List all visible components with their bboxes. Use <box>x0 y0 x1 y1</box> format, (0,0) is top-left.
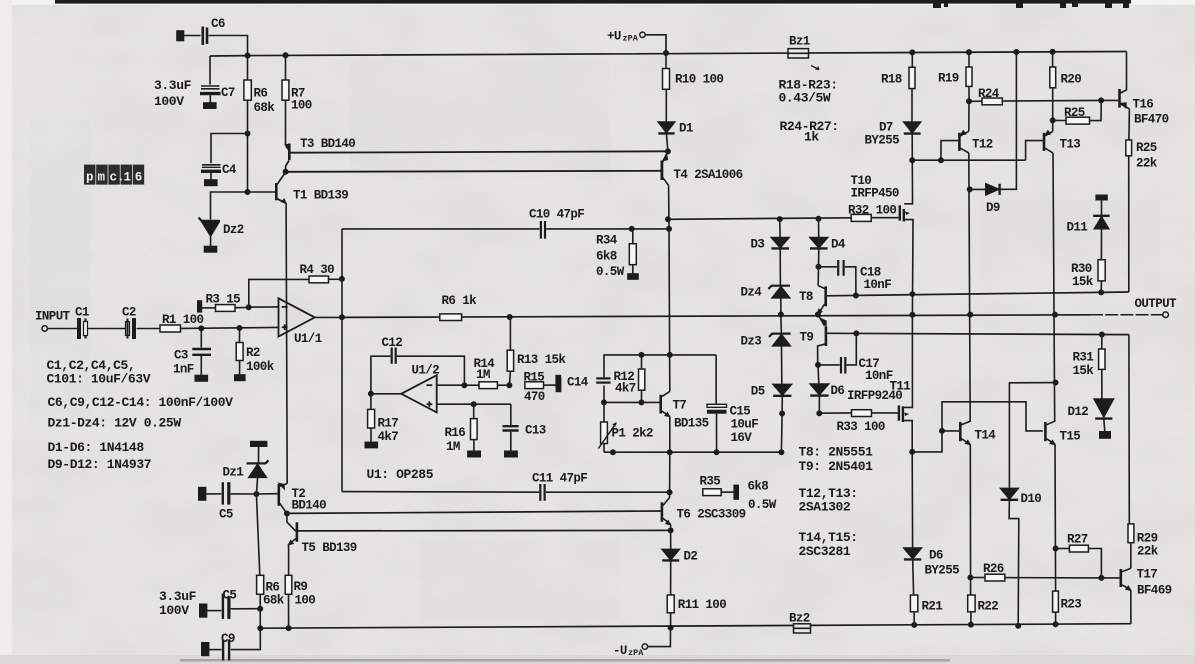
svg-text:100V: 100V <box>159 603 189 618</box>
wire T15 emitter down <box>1054 444 1057 591</box>
svg-text:22k: 22k <box>1137 545 1159 559</box>
svg-text:BY255: BY255 <box>865 134 900 148</box>
svg-text:D3: D3 <box>751 238 765 252</box>
svg-text:C13: C13 <box>525 424 546 438</box>
svg-text:D5: D5 <box>751 385 765 399</box>
svg-text:2SC3281: 2SC3281 <box>799 544 851 559</box>
svg-text:1k: 1k <box>804 130 819 145</box>
svg-text:m: m <box>98 171 106 185</box>
node output rail diode chain junction <box>779 312 783 316</box>
resistor R6 68k (top) <box>247 56 249 81</box>
resistor R17 4k7 <box>370 394 372 410</box>
wire U1/2 minus input line <box>437 384 465 386</box>
svg-text:BY255: BY255 <box>925 564 960 578</box>
node R33 junction <box>817 411 821 415</box>
wire inverting input line <box>249 306 279 308</box>
resistor R20 <box>1052 52 1054 67</box>
mosfet T10 IRFP450 <box>899 205 901 220</box>
resistor R35 with stub <box>703 489 721 496</box>
resistor R3 15 with stub terminal <box>198 301 202 312</box>
node T12 base line junction <box>910 158 914 162</box>
node VAS vertical bias junction <box>668 353 672 357</box>
svg-text:IRFP9240: IRFP9240 <box>847 389 902 403</box>
diode D5 <box>773 384 791 395</box>
svg-text:R21: R21 <box>922 600 943 614</box>
diode chain D4 <box>818 219 820 238</box>
svg-text:T1 BD139: T1 BD139 <box>293 189 348 203</box>
svg-text:BF469: BF469 <box>1137 584 1172 598</box>
resistor R6 68k (bottom) <box>257 575 264 594</box>
svg-text:zPA: zPA <box>623 34 639 44</box>
node R13/R14/R15 junction <box>507 383 511 387</box>
capacitor C2 <box>126 322 130 336</box>
wire compensation riser x=342 <box>341 229 343 492</box>
wire U1/2 plus input line <box>437 403 511 405</box>
node output rail junction T14 <box>968 312 972 316</box>
wire T10 drain <box>911 160 913 196</box>
svg-text:R13 15k: R13 15k <box>517 353 566 367</box>
wire T12 collector down <box>969 153 970 422</box>
svg-text:C1: C1 <box>75 306 89 320</box>
node T2 collector junction <box>285 511 289 515</box>
svg-text:C4: C4 <box>222 163 237 177</box>
svg-text:Bz2: Bz2 <box>789 612 810 626</box>
svg-text:D2: D2 <box>684 550 698 564</box>
resistor R22 <box>968 595 975 612</box>
wire R24 line <box>969 99 1101 102</box>
node bias rail junction <box>779 450 783 454</box>
capacitor C14 <box>596 377 610 379</box>
node R30 bottom junction <box>1099 290 1103 294</box>
capacitor C17 10nF <box>818 364 840 366</box>
svg-text:R16: R16 <box>445 426 466 440</box>
node R13 top junction <box>508 315 512 319</box>
node P1 bottom junction <box>611 450 615 454</box>
node T7 base junction <box>639 400 643 404</box>
svg-text:T5 BD139: T5 BD139 <box>302 541 357 555</box>
wire T9 line corner to R29 <box>1128 335 1130 524</box>
node gate-line junction <box>666 217 670 221</box>
transistor T8 2N5551 <box>817 267 819 286</box>
wire T5 emitter to R9 <box>288 544 290 575</box>
svg-text:C15: C15 <box>730 405 751 419</box>
svg-text:Dz1-Dz4: 12V 0.25W: Dz1-Dz4: 12V 0.25W <box>48 416 182 431</box>
svg-text:R34: R34 <box>596 234 618 248</box>
wire T7 emitter to C11 node <box>669 452 671 492</box>
svg-text:D6: D6 <box>831 384 845 398</box>
svg-text:Dz2: Dz2 <box>223 223 244 237</box>
svg-text:T14: T14 <box>975 429 997 443</box>
node output rail junction T15 <box>1053 312 1057 316</box>
resistor R29 22k <box>1128 524 1134 543</box>
svg-text:4k7: 4k7 <box>378 430 399 444</box>
svg-text:C3: C3 <box>174 349 188 363</box>
node R25 left junction <box>1051 118 1055 122</box>
node R6-C4 junction <box>245 131 249 135</box>
node rail-D9 junction <box>1014 50 1018 54</box>
wire T8 base line (long to R25 22k) <box>827 292 1129 296</box>
resistor R25 1k horizontal <box>1053 119 1066 121</box>
svg-text:+U: +U <box>607 30 621 44</box>
svg-text:3.3uF: 3.3uF <box>159 589 197 604</box>
wire D5 chain to bias rail <box>780 414 783 453</box>
capacitor C6 <box>177 31 184 41</box>
svg-text:C9: C9 <box>221 632 235 646</box>
node T12 base junction <box>939 158 943 162</box>
resistor R9 100 <box>285 575 292 594</box>
svg-text:C5: C5 <box>223 589 237 603</box>
zener Dz3 <box>780 315 782 334</box>
node R23 rail junction <box>1053 622 1057 626</box>
node T11 drain junction <box>910 450 914 454</box>
node T8 line crossing <box>910 292 914 296</box>
transistor T17 BF469 <box>1120 569 1123 587</box>
node D10 top junction <box>1053 380 1057 384</box>
zener Dz1 <box>251 442 267 447</box>
diode D12 with stub <box>1094 399 1113 417</box>
terminal -UzPA <box>642 644 647 649</box>
node C12/R14 junction <box>462 383 466 387</box>
node R9 rail junction <box>286 626 290 630</box>
trimmer P1 2k2 <box>603 402 605 422</box>
wire U1/1 output <box>315 316 343 318</box>
svg-text:T7: T7 <box>673 399 687 413</box>
transistor T6 2SC3309 <box>669 492 671 497</box>
node R34 top junction <box>630 227 634 231</box>
capacitor C5 (upper) <box>199 488 206 500</box>
svg-text:R6: R6 <box>254 87 268 101</box>
resistor R11 100 <box>670 560 672 595</box>
svg-text:U1/1: U1/1 <box>294 332 322 346</box>
wire Dz1 node down to R6b <box>256 494 259 575</box>
svg-text:OUTPUT: OUTPUT <box>1135 297 1178 311</box>
svg-text:R31: R31 <box>1073 351 1094 365</box>
svg-text:D12: D12 <box>1068 405 1089 419</box>
svg-text:68k: 68k <box>254 101 276 115</box>
capacitor C11 47pF <box>342 491 539 494</box>
svg-text:0.5W: 0.5W <box>748 498 777 512</box>
capacitor C1 <box>77 318 81 339</box>
transistor T1 BD139 <box>275 183 278 200</box>
capacitor C5 (3.3uF lower) <box>200 604 207 617</box>
svg-text:100V: 100V <box>154 94 184 109</box>
capacitor C3 <box>200 328 202 347</box>
diode D10 <box>1009 383 1055 489</box>
node T7 emitter junction <box>668 450 672 454</box>
svg-text:1M: 1M <box>476 368 490 382</box>
node rail-R10 junction <box>664 51 668 55</box>
diode D11 with stub <box>1096 195 1107 199</box>
svg-text:R25: R25 <box>1064 106 1085 120</box>
svg-text:0.5W: 0.5W <box>596 265 625 279</box>
wire bias bottom rail <box>604 451 781 453</box>
transistor T12 <box>941 141 958 161</box>
diode chain D3 <box>779 219 781 237</box>
svg-text:C6,C9,C12-C14: 100nF/100V: C6,C9,C12-C14: 100nF/100V <box>48 395 234 410</box>
svg-text:10nF: 10nF <box>864 278 892 292</box>
node R24 junction <box>967 99 971 103</box>
capacitor C4 <box>211 134 248 164</box>
diode D6 BY255 <box>911 452 913 548</box>
wire R1 to opamp + <box>181 327 279 328</box>
svg-text:Dz4: Dz4 <box>741 286 763 300</box>
node R22 rail junction <box>969 622 973 626</box>
svg-text:R32 100: R32 100 <box>848 204 896 218</box>
svg-text:C12: C12 <box>382 336 403 350</box>
resistor R25 22k <box>1128 109 1131 140</box>
wire C10 line to VAS vertical <box>632 228 669 230</box>
node R27 junction <box>1053 546 1057 550</box>
node rail left end junction <box>258 626 262 630</box>
wire T13 emitter to R20/R25 <box>1052 120 1054 131</box>
wire bottom rail -UzPA <box>260 624 1131 629</box>
transistor T16 BF470 <box>1121 52 1127 94</box>
svg-text:1: 1 <box>124 171 132 185</box>
node output rail T10 junction <box>910 313 914 317</box>
svg-text:D10: D10 <box>1021 492 1042 506</box>
transistor T5 BD139 <box>287 514 296 532</box>
svg-text:R27: R27 <box>1067 533 1088 547</box>
node T14 base junction <box>940 429 944 433</box>
node C17 right junction <box>854 331 858 335</box>
node R16 junction <box>472 402 476 406</box>
svg-text:D9: D9 <box>986 201 1000 215</box>
wire input to C1 <box>48 328 78 330</box>
op-amp U1/1 <box>279 298 315 336</box>
node C3 junction <box>199 326 203 330</box>
transistor T9 2N5401 <box>818 315 825 326</box>
node rail-R7 junction <box>283 53 287 57</box>
wire T1 collector node to T4 base (long) <box>286 171 661 172</box>
node T8 emitter rail junction <box>816 312 820 316</box>
node C5b junction <box>258 607 262 611</box>
wire T6 base line (long) <box>287 511 661 513</box>
node T3/T1 junction <box>283 170 287 174</box>
resistor R10 100 <box>665 53 667 69</box>
svg-text:0.43/5W: 0.43/5W <box>779 91 831 106</box>
mosfet T11 IRFP9240 <box>898 405 900 420</box>
svg-text:R20: R20 <box>1061 73 1082 87</box>
resistor R19 <box>968 52 970 67</box>
svg-text:R18: R18 <box>881 73 902 87</box>
transistor T14 2SC3281 <box>959 422 962 441</box>
node C11-T6 junction <box>667 490 671 494</box>
node T6 emitter junction <box>668 528 672 532</box>
node U1/2 output junction <box>369 392 373 396</box>
svg-text:T14,T15:: T14,T15: <box>799 530 858 545</box>
wire T7 emitter down <box>669 416 671 452</box>
node inverting input junction <box>247 305 251 309</box>
wire T9 base line <box>827 333 1129 334</box>
wire R6 down to T1 base node <box>247 134 249 193</box>
node T2 base junction <box>254 492 258 496</box>
node T1 base junction <box>245 190 249 194</box>
op-amp U1/2 (left pointing) <box>401 375 437 412</box>
logo pmc.16 <box>84 165 144 185</box>
node rail-R19 junction <box>967 50 971 54</box>
svg-text:R6: R6 <box>266 581 280 595</box>
node R33 line left junction <box>780 411 784 415</box>
node T4 emitter junction <box>666 149 670 153</box>
svg-text:C10 47pF: C10 47pF <box>529 208 584 222</box>
resistor R12 4k7 <box>641 355 643 369</box>
wire +UzPA top rail <box>210 52 1127 57</box>
node R21 rail junction <box>912 623 916 627</box>
resistor R18 <box>911 52 913 67</box>
wire T13 collector down <box>1053 153 1055 422</box>
svg-text:R29: R29 <box>1137 532 1158 546</box>
node C18 left junction <box>816 265 820 269</box>
node C10-line junction <box>667 227 671 231</box>
svg-text:T16: T16 <box>1133 98 1154 112</box>
svg-text:2SA1302: 2SA1302 <box>799 500 851 515</box>
node R31 top junction <box>1100 332 1104 336</box>
svg-text:6k8: 6k8 <box>596 250 617 264</box>
scan top edge bar <box>55 0 1131 8</box>
svg-text:-U: -U <box>613 644 627 658</box>
svg-text:R1 100: R1 100 <box>162 313 204 327</box>
svg-text:C7: C7 <box>221 86 235 100</box>
svg-text:1M: 1M <box>446 440 460 454</box>
svg-text:U1: OP285: U1: OP285 <box>367 467 434 482</box>
transistor T7 BD135 <box>659 395 662 414</box>
wire +UzPA stub <box>645 35 666 53</box>
svg-text:D4: D4 <box>831 238 846 252</box>
wire main output rail <box>342 315 1090 318</box>
zener Dz2 <box>211 192 248 220</box>
wire T3 collector to T4 emitter node (long) <box>291 151 668 152</box>
svg-text:R25: R25 <box>1136 141 1157 155</box>
resistor R23 <box>1053 591 1059 612</box>
node D9 anode junction <box>968 187 972 191</box>
svg-text:6: 6 <box>135 171 143 185</box>
capacitor C13 <box>510 404 512 425</box>
svg-text:D1-D6: 1N4148: D1-D6: 1N4148 <box>48 440 145 455</box>
wire C1-C2 <box>88 328 125 330</box>
wire T7 base line <box>604 401 660 403</box>
svg-text:T3 BD140: T3 BD140 <box>300 137 355 151</box>
svg-text:D6: D6 <box>929 549 943 563</box>
svg-text:R11 100: R11 100 <box>678 598 726 612</box>
svg-text:BF470: BF470 <box>1134 113 1169 127</box>
resistor R21 <box>910 595 917 612</box>
MAIN SCHEMATIC GROUPS INSERTED BELOW <box>210 32 1127 69</box>
node R4 right junction <box>340 277 344 281</box>
wire R25 22k down to T8 line <box>1128 156 1130 292</box>
svg-text:15k: 15k <box>1073 364 1095 378</box>
svg-text:R9: R9 <box>294 580 308 594</box>
capacitor C9 <box>202 643 209 656</box>
node P1 top junction <box>602 400 606 404</box>
wire upper gate line to R32 <box>668 218 851 220</box>
svg-text:T12: T12 <box>972 138 993 152</box>
svg-text:15k: 15k <box>1072 275 1094 289</box>
svg-text:T15: T15 <box>1060 430 1081 444</box>
svg-text:T8: T8 <box>799 290 813 304</box>
svg-text:c.: c. <box>110 171 125 185</box>
svg-text:T9: 2N5401: T9: 2N5401 <box>799 459 874 474</box>
resistor R1 100 <box>137 328 161 330</box>
svg-text:R6 1k: R6 1k <box>442 294 478 308</box>
svg-text:P1 2k2: P1 2k2 <box>612 427 654 441</box>
resistor R15 470 with stub <box>525 382 544 389</box>
svg-text:R19: R19 <box>938 72 959 86</box>
svg-text:16V: 16V <box>731 431 753 445</box>
diode D6 <box>817 365 820 384</box>
svg-text:R2: R2 <box>246 346 260 360</box>
svg-text:R26: R26 <box>983 562 1004 576</box>
node U1/1 output junction <box>340 315 344 319</box>
svg-text:IRFP450: IRFP450 <box>851 187 899 201</box>
resistor R14 1M <box>464 384 479 386</box>
wire VAS vertical upper <box>668 185 670 229</box>
svg-text:R17: R17 <box>378 417 399 431</box>
svg-text:zPA: zPA <box>628 648 644 658</box>
svg-text:U1/2: U1/2 <box>412 364 440 378</box>
wire T1 emitter down to T2 emitter <box>286 203 287 483</box>
resistor R33 100 <box>819 412 851 414</box>
wire to T2 base <box>256 493 277 495</box>
resistor R27 <box>1056 548 1070 550</box>
diode D7 BY255 <box>904 122 921 133</box>
resistor R34 6k8 0.5W <box>632 229 634 244</box>
svg-text:C14: C14 <box>567 376 589 390</box>
wire U1/2 output <box>371 393 401 395</box>
node rail-R20 junction <box>1050 50 1054 54</box>
node C17 left junction <box>816 363 820 367</box>
artifact arrow mark <box>811 66 819 70</box>
fuse Bz1 <box>788 49 809 58</box>
wire bias top rail <box>603 386 605 403</box>
wire C6 to rail <box>209 36 248 56</box>
svg-text:D11: D11 <box>1067 221 1088 235</box>
svg-text:C5: C5 <box>219 508 233 522</box>
svg-text:BD135: BD135 <box>674 417 709 431</box>
svg-text:D9-D12: 1N4937: D9-D12: 1N4937 <box>48 457 152 472</box>
resistor R6 1k <box>440 314 462 321</box>
diode D2 <box>670 530 672 549</box>
stub terminal near C14 <box>556 376 560 387</box>
resistor R26 <box>970 577 985 579</box>
svg-text:68k: 68k <box>263 594 285 608</box>
wire T10 source to output rail <box>911 225 914 315</box>
resistor R30 15k <box>1098 260 1105 281</box>
svg-text:BD140: BD140 <box>292 499 327 513</box>
node rail-C6 junction <box>245 53 249 57</box>
resistor R24 <box>982 98 1002 105</box>
wire T17 base <box>1101 577 1119 579</box>
node T16 base junction <box>1099 98 1103 102</box>
svg-text:Dz1: Dz1 <box>223 466 244 480</box>
svg-text:Dz3: Dz3 <box>741 335 762 349</box>
node T17 base junction <box>1099 576 1103 580</box>
terminal OUTPUT <box>1163 312 1169 318</box>
svg-text:R4 30: R4 30 <box>300 263 335 277</box>
svg-text:T17: T17 <box>1137 568 1158 582</box>
svg-text:R23: R23 <box>1061 598 1082 612</box>
node T8 base junction <box>854 293 858 297</box>
svg-text:R15: R15 <box>524 371 545 385</box>
transistor T3 BD140 <box>286 145 289 150</box>
wire node to T1 base <box>248 191 276 193</box>
svg-text:10uF: 10uF <box>731 418 759 432</box>
svg-text:T4 2SA1006: T4 2SA1006 <box>674 168 743 182</box>
node R2 junction <box>237 326 241 330</box>
node D3 top junction <box>778 217 782 221</box>
wire VAS vertical mid <box>668 229 671 392</box>
transistor T13 <box>1026 141 1043 161</box>
svg-text:R35: R35 <box>700 475 721 489</box>
